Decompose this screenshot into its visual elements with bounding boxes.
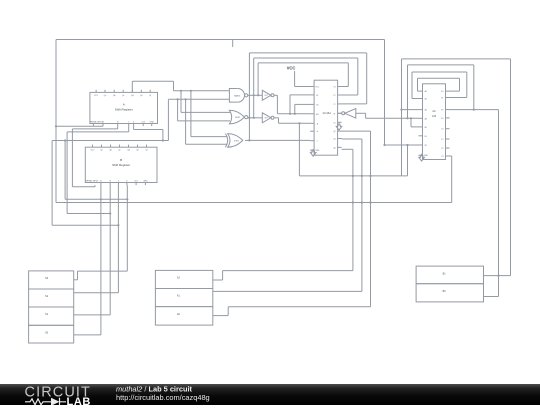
svg-text:Q2: Q2	[333, 131, 335, 133]
svg-text:C2: C2	[441, 148, 443, 150]
svg-text:Qe: Qe	[136, 150, 139, 152]
svg-text:NOT: NOT	[265, 118, 268, 120]
svg-text:VCC: VCC	[94, 95, 99, 97]
svg-text:Qb: Qb	[109, 150, 112, 152]
svg-text:C0: C0	[441, 129, 443, 131]
svg-text:S1: S1	[316, 95, 318, 97]
svg-text:Qd: Qd	[131, 95, 134, 97]
svg-text:GND: GND	[150, 121, 155, 123]
svg-text:Qb: Qb	[113, 95, 116, 97]
svg-text:A2: A2	[425, 109, 427, 112]
svg-text:NOT: NOT	[265, 95, 268, 97]
svg-text:Shift Register: Shift Register	[115, 108, 133, 112]
svg-text:A-B: A-B	[432, 115, 436, 118]
svg-text:VCC: VCC	[287, 66, 296, 71]
svg-text:B0: B0	[425, 127, 427, 129]
svg-text:GND: GND	[424, 155, 429, 157]
svg-text:Qd: Qd	[127, 150, 130, 152]
svg-text:VCC: VCC	[91, 150, 96, 152]
svg-text:A1: A1	[425, 98, 427, 101]
svg-text:Qc: Qc	[118, 150, 120, 152]
svg-text:Qe: Qe	[140, 95, 143, 97]
svg-text:C1: C1	[441, 139, 443, 141]
svg-text:F1: F1	[441, 98, 443, 100]
svg-text:F3: F3	[441, 118, 443, 120]
svg-text:LAB: LAB	[67, 396, 91, 405]
svg-text:Shift Register: Shift Register	[112, 163, 130, 167]
svg-text:B1: B1	[425, 136, 427, 138]
svg-text:XOR1: XOR1	[234, 140, 239, 142]
svg-text:B: B	[120, 158, 122, 162]
svg-text:Y3: Y3	[333, 87, 335, 89]
svg-text:GND: GND	[315, 150, 320, 152]
svg-text:http://circuitlab.com/cazq48g: http://circuitlab.com/cazq48g	[116, 393, 210, 402]
svg-text:Y0: Y0	[333, 122, 335, 124]
svg-text:Q1: Q1	[333, 139, 335, 141]
svg-text:NOR1: NOR1	[235, 117, 240, 119]
svg-text:Q0: Q0	[333, 147, 335, 149]
svg-text:W: W	[334, 113, 336, 115]
svg-text:A: A	[123, 102, 125, 106]
svg-text:B2: B2	[425, 145, 427, 147]
svg-text:Y2: Y2	[333, 95, 335, 97]
svg-text:A0: A0	[425, 90, 427, 93]
svg-text:SERIAL INPUT: SERIAL INPUT	[86, 179, 100, 182]
svg-text:Qc: Qc	[122, 95, 124, 97]
svg-text:NAND1: NAND1	[234, 94, 240, 97]
svg-text:Y1: Y1	[333, 104, 335, 106]
svg-text:4-b Mux: 4-b Mux	[323, 112, 332, 115]
svg-text:F0: F0	[441, 91, 443, 93]
svg-text:S0: S0	[316, 104, 318, 106]
svg-text:F2: F2	[441, 110, 443, 112]
svg-text:GND: GND	[143, 180, 148, 182]
svg-text:C3: C3	[441, 156, 443, 158]
svg-text:A3: A3	[425, 117, 427, 120]
